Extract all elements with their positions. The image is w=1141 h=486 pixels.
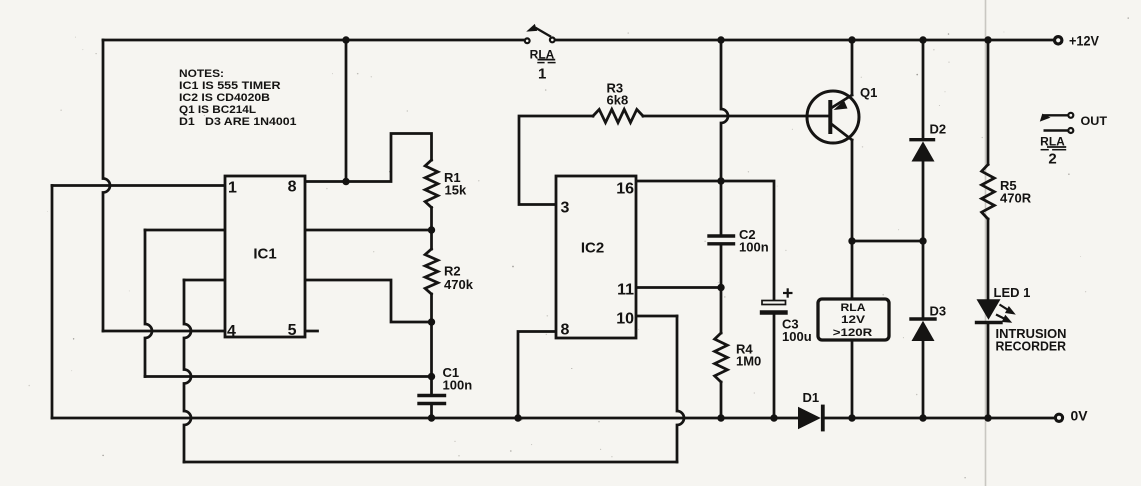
svg-text:2: 2 bbox=[1048, 151, 1056, 168]
wire pin11 junction to R4 bbox=[720, 288, 723, 334]
relay contact RLA/2 upper circle bbox=[1068, 113, 1073, 118]
wire IC1 second left pin to vertical bbox=[145, 229, 225, 232]
junction node rail/346 bbox=[342, 36, 349, 43]
wire node line Q1-D2 bbox=[852, 240, 923, 243]
wire vertical 145 down, hop over pin4 line bbox=[145, 230, 152, 377]
svg-text:1: 1 bbox=[228, 180, 237, 197]
svg-text:3: 3 bbox=[561, 200, 570, 217]
wire relay top lead bbox=[851, 241, 854, 299]
wire bottom wrap line bbox=[184, 461, 677, 464]
junction node bus/R4 bbox=[717, 414, 724, 421]
wire 0V bus left of D1 bbox=[52, 417, 798, 420]
svg-text:12V: 12V bbox=[841, 314, 866, 326]
transistor Q1 base bar bbox=[828, 102, 832, 132]
junction node rail/721 bbox=[717, 36, 724, 43]
wire D2 bottom lead bbox=[922, 162, 925, 242]
svg-text:IC1: IC1 bbox=[253, 246, 276, 263]
wire R4 bottom lead bbox=[720, 382, 723, 418]
wire vertical 721 from rail to C2, hop over R3 line bbox=[721, 40, 728, 234]
capacitor C2 plates bbox=[709, 234, 734, 237]
svg-text:4: 4 bbox=[227, 323, 236, 340]
svg-text:470k: 470k bbox=[444, 277, 474, 292]
wire R5 top lead bbox=[987, 40, 990, 165]
wire IC1 pin5 stub bbox=[305, 330, 318, 333]
junction node rail/852 bbox=[848, 36, 855, 43]
junction node C2/R4 pin11 bbox=[717, 284, 724, 291]
junction node C1 top bbox=[428, 373, 435, 380]
resistor R5 bbox=[982, 165, 995, 220]
svg-text:RLA: RLA bbox=[841, 302, 866, 314]
wire +12V top rail left segment bbox=[103, 39, 524, 42]
resistor R1 bbox=[425, 160, 438, 208]
diode D3 triangle bbox=[912, 321, 935, 341]
junction node pin16 line bbox=[717, 177, 724, 184]
wire relay bottom lead bbox=[851, 340, 854, 418]
svg-text:6k8: 6k8 bbox=[607, 93, 629, 108]
wire C1 top line from vertical 145 to C1, hop over vertical 184 bbox=[145, 375, 432, 378]
wire C1 bottom lead bbox=[430, 405, 433, 418]
wire C2 bottom to pin11 junction bbox=[720, 246, 723, 288]
wire R2 leads bbox=[430, 230, 433, 322]
junction node bus/relay bbox=[848, 414, 855, 421]
svg-text:8: 8 bbox=[288, 179, 297, 196]
notes text block bbox=[179, 68, 297, 128]
switch RLA/1 right contact bbox=[550, 38, 555, 43]
capacitor C3 electrolytic plates bbox=[762, 301, 786, 305]
IC1 box bbox=[225, 176, 305, 337]
junction node bus/D3 bbox=[919, 414, 926, 421]
terminal +12V bbox=[1055, 37, 1062, 44]
switch RLA/1 lever arrowhead bbox=[526, 24, 537, 32]
wire vertical from rail corner down to IC1 pin4 line, hop over pin1 wire bbox=[103, 40, 110, 331]
svg-text:0V: 0V bbox=[1071, 408, 1089, 424]
wire IC1 third left pin bbox=[184, 279, 225, 282]
svg-text:15k: 15k bbox=[445, 183, 467, 198]
switch RLA/1 left contact bbox=[525, 38, 530, 43]
wire IC1 third right pin to R2 bottom junction bbox=[305, 280, 432, 322]
svg-text:+12V: +12V bbox=[1069, 33, 1100, 49]
LED1 cathode bar bbox=[977, 321, 1002, 324]
junction node rail/988 bbox=[984, 36, 991, 43]
wire R3 to Q1 base bbox=[643, 115, 829, 118]
wire IC2 pin3 to R3 bbox=[519, 116, 593, 205]
LED1 emission arrow upper bbox=[996, 305, 1016, 323]
svg-text:1M0: 1M0 bbox=[736, 354, 761, 369]
wire IC2 pin8 to 0V bus bbox=[518, 332, 556, 419]
diode D2 cathode bar bbox=[911, 138, 934, 141]
wire vertical from top rail to pin8 line bbox=[345, 40, 348, 182]
LED1 triangle bbox=[977, 299, 1001, 320]
svg-text:Q1: Q1 bbox=[860, 85, 877, 100]
switch RLA/1 lever bbox=[536, 28, 552, 37]
transistor Q1 circle bbox=[807, 91, 859, 143]
svg-text:1: 1 bbox=[538, 66, 546, 83]
transistor Q1 emitter arrowhead bbox=[834, 101, 848, 111]
svg-text:RECORDER: RECORDER bbox=[996, 339, 1067, 354]
wire vertical 184 down to wrap line, hops over pin4, C1 line, bus bbox=[184, 280, 191, 462]
junction node bus/C1 bbox=[428, 414, 435, 421]
wire R5 to LED1 bbox=[987, 219, 990, 300]
wire D3 bottom lead bbox=[922, 341, 925, 418]
svg-text:470R: 470R bbox=[1000, 191, 1032, 206]
svg-text:NOTES:: NOTES: bbox=[179, 68, 224, 80]
wire IC2 pin10 line bbox=[636, 315, 677, 318]
svg-text:D2: D2 bbox=[930, 122, 947, 137]
svg-text:IC1 IS 555 TIMER: IC1 IS 555 TIMER bbox=[179, 80, 281, 92]
wire R2 bottom to C1 bbox=[430, 322, 433, 394]
svg-text:16: 16 bbox=[616, 181, 634, 198]
wire R1 bottom lead bbox=[430, 208, 433, 231]
resistor R3 bbox=[593, 109, 643, 122]
svg-text:100n: 100n bbox=[739, 240, 769, 255]
wire D2 top lead bbox=[922, 40, 925, 139]
junction node R2 bottom bbox=[428, 318, 435, 325]
capacitor C1 plates bbox=[419, 394, 445, 397]
junction node bus/C3 bbox=[770, 414, 777, 421]
junction node D2/D3 bbox=[919, 237, 926, 244]
svg-text:100n: 100n bbox=[443, 378, 473, 393]
junction node R1/R2 bbox=[428, 226, 435, 233]
diode D2 triangle bbox=[912, 141, 935, 161]
diode D3 cathode bar bbox=[911, 317, 935, 320]
relay RLA text bbox=[833, 302, 873, 339]
wire IC1 pin8 line to R1 branch bbox=[305, 134, 432, 182]
wire 0V bus right of D1 to terminal bbox=[824, 417, 1053, 420]
diode D1 cathode bar bbox=[821, 407, 825, 430]
junction node bus/518 bbox=[514, 414, 521, 421]
wire D3 top lead bbox=[922, 241, 925, 318]
svg-text:11: 11 bbox=[617, 282, 634, 299]
wire vertical 677 from wrap up to IC2 pin10, hop over bus bbox=[677, 316, 684, 462]
wire IC1 pin1 line to far left bbox=[52, 184, 225, 187]
relay contact RLA/2 upper lever bbox=[1044, 114, 1068, 116]
wire IC2 pin11 line bbox=[636, 286, 721, 289]
relay RLA coil box bbox=[818, 299, 889, 340]
wire Q1 emitter to rail bbox=[851, 40, 854, 95]
junction node bus/LED bbox=[984, 414, 991, 421]
svg-text:IC2 IS CD4020B: IC2 IS CD4020B bbox=[179, 92, 270, 104]
resistor R2 bbox=[425, 249, 438, 294]
svg-text:D1 D3 ARE 1N4001: D1 D3 ARE 1N4001 bbox=[179, 116, 297, 128]
svg-text:>120R: >120R bbox=[833, 327, 873, 339]
relay contact RLA/2 lower circle bbox=[1068, 128, 1073, 133]
relay contact RLA/2 arrowhead bbox=[1040, 114, 1051, 122]
svg-text:100u: 100u bbox=[782, 329, 812, 344]
wire IC2 pin16 line to C3 corner bbox=[636, 181, 774, 301]
svg-text:10: 10 bbox=[616, 311, 634, 328]
terminal 0V bbox=[1055, 414, 1062, 421]
svg-text:D3: D3 bbox=[930, 304, 947, 319]
junction node Q1/relay bbox=[848, 237, 855, 244]
capacitor C3 plus sign bbox=[783, 288, 793, 297]
relay contact RLA/2 lower lever bbox=[1044, 129, 1068, 131]
resistor R4 bbox=[715, 333, 728, 382]
IC2 box bbox=[556, 176, 636, 338]
junction node pin8 line bbox=[342, 178, 349, 185]
diode D1 triangle bbox=[798, 407, 821, 430]
scan fold artifact line bbox=[985, 0, 987, 486]
svg-text:LED 1: LED 1 bbox=[994, 285, 1031, 300]
svg-text:8: 8 bbox=[561, 322, 570, 339]
wire Q1 collector down to relay node bbox=[851, 140, 854, 241]
svg-text:IC2: IC2 bbox=[581, 240, 604, 257]
wire +12V top rail right segment bbox=[555, 39, 1053, 42]
transistor Q1 collector diagonal bbox=[832, 125, 852, 141]
junction node rail/923 bbox=[919, 36, 926, 43]
svg-text:D1: D1 bbox=[803, 390, 820, 405]
label R1 value bbox=[443, 81, 1067, 406]
wire C3 bottom lead bbox=[773, 315, 776, 418]
LED1 emission arrow lower bbox=[996, 315, 1007, 321]
svg-text:OUT: OUT bbox=[1081, 116, 1108, 128]
wire IC1 second right pin to R1/R2 junction bbox=[305, 229, 432, 232]
wire LED1 bottom lead bbox=[987, 324, 990, 418]
transistor Q1 emitter diagonal bbox=[832, 95, 852, 108]
svg-text:Q1 IS BC214L: Q1 IS BC214L bbox=[179, 104, 256, 116]
wire IC1 pin4 line bbox=[103, 330, 225, 333]
wire far-left vertical down to 0V bus bbox=[51, 186, 54, 419]
svg-text:5: 5 bbox=[288, 322, 297, 339]
